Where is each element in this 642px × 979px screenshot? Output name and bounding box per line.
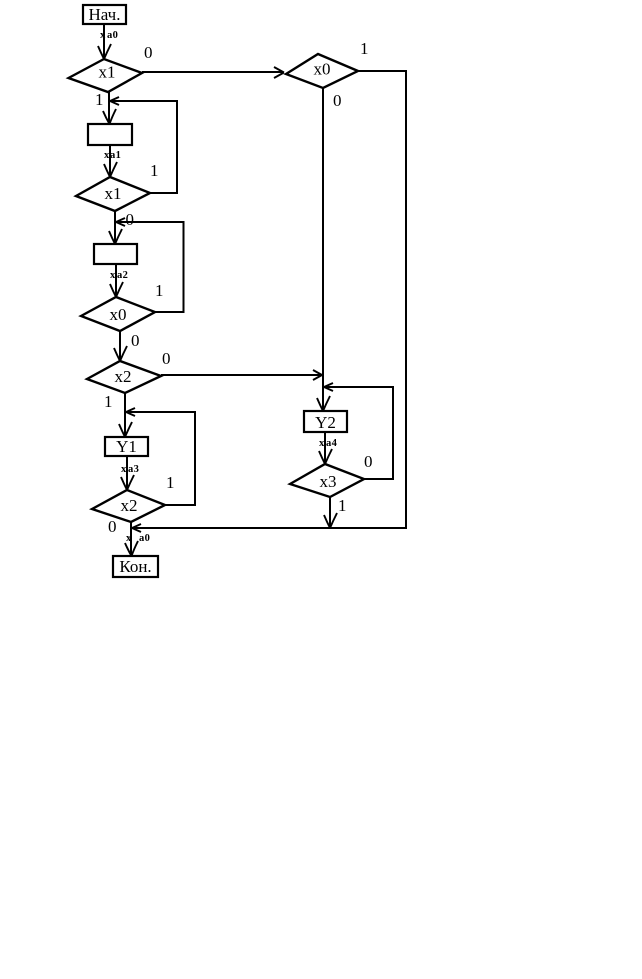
svg-text:0: 0 [364,452,373,471]
svg-text:Y2: Y2 [315,413,336,432]
wire loop1 from D2 right [110,101,177,193]
svg-text:0: 0 [162,349,171,368]
process Y1 [105,437,148,456]
svg-text:x: x [110,270,116,281]
svg-text:a3: a3 [128,464,139,475]
svg-text:a1: a1 [110,150,121,161]
wire D2 bottom to rect2 [114,211,116,244]
process rect2 [94,244,137,264]
decision D5 x2 [92,490,165,522]
svg-text:1: 1 [166,473,175,492]
arrowhead right into rail x=323 [313,370,322,380]
svg-text:x2: x2 [121,496,138,515]
svg-text:0: 0 [333,91,342,110]
decision D1 x1 [69,59,143,92]
svg-text:x2: x2 [115,367,132,386]
svg-text:0: 0 [144,43,153,62]
wire loop2 from D3 right [116,222,184,312]
svg-text:Нач.: Нач. [89,5,121,24]
arrowhead down into Кон [125,541,138,556]
arrowhead left into line at y=101 [110,97,119,105]
svg-text:Y1: Y1 [116,437,137,456]
wire Y1 to D5 [126,456,128,490]
svg-text:0: 0 [131,331,140,350]
wire D7 right tip to right rail [358,71,406,529]
arrowhead left into rail at y=387 [324,383,333,391]
svg-text:x1: x1 [99,63,116,82]
decision D6 x3 [290,464,364,497]
wire D4 bottom to Y1 [124,393,126,437]
svg-text:x: x [121,464,127,475]
svg-text:0: 0 [126,210,135,229]
wire D1 right to x0 [142,71,283,73]
arrowhead down into x1 [98,44,111,59]
svg-text:x: x [319,438,325,449]
terminator box Нач. [83,5,126,24]
decision D2 x1 [76,177,150,211]
wire loop3 from D5 right [126,412,195,505]
svg-text:Кон.: Кон. [119,557,151,576]
svg-text:1: 1 [155,281,164,300]
process Y2 [304,411,347,432]
arrowhead down into Y2 [317,396,330,411]
bottom rail wire [132,527,406,529]
svg-text:1: 1 [360,39,369,58]
svg-text:a2: a2 [117,270,128,281]
wire rect2 to D3 [115,264,117,297]
svg-text:1: 1 [338,496,347,515]
svg-text:a0: a0 [139,533,150,544]
arrowhead down into Y1 [119,422,132,437]
svg-text:1: 1 [104,392,113,411]
svg-text:x0: x0 [110,305,127,324]
wire Y2 to x3 [324,432,326,464]
decision D3 x0 [81,297,155,331]
arrowhead down into D2 [104,162,117,177]
arrowhead left into junction at y=528 [132,524,141,532]
wire x3 bottom to bottom rail [329,497,331,528]
svg-text:x1: x1 [105,184,122,203]
wire D4 right to mid rail [161,374,322,376]
svg-text:1: 1 [150,161,159,180]
arrowhead down into D3 [110,282,123,297]
arrowhead down into D4 [114,346,127,361]
wire D7 bottom down to Y2 [322,88,324,411]
svg-text:a4: a4 [326,438,338,449]
svg-text:a0: a0 [107,30,118,41]
svg-text:1: 1 [95,90,104,109]
wire D3 bottom to D4 [119,331,121,361]
terminator box Кон. [113,556,158,577]
arrowhead left into line at y=222 [116,218,125,226]
svg-text:x: x [100,30,106,41]
arrowhead down into x3 [319,449,332,464]
wire rect1 to D2 [109,145,111,177]
wire loop4 from x3 right [324,387,393,479]
arrowhead down into bottom rail [324,513,337,528]
svg-text:x3: x3 [320,472,337,491]
arrowhead left into line at y=412 [126,408,135,416]
arrowhead down into rect1 [103,109,116,124]
decision D4 x2 [87,361,161,393]
wire D5 bottom to Кон [130,522,132,556]
svg-text:x: x [126,533,132,544]
arrowhead right into x0 [274,67,284,78]
decision D7 x0 top right [286,54,358,88]
wire Нач to x1 [103,24,105,59]
wire D1 bottom to rect1 [108,92,110,124]
svg-text:0: 0 [108,517,117,536]
arrowhead down into D5 [121,475,134,490]
process rect1 [88,124,132,145]
arrowhead down into rect2 [109,229,122,244]
svg-text:x0: x0 [314,60,331,79]
